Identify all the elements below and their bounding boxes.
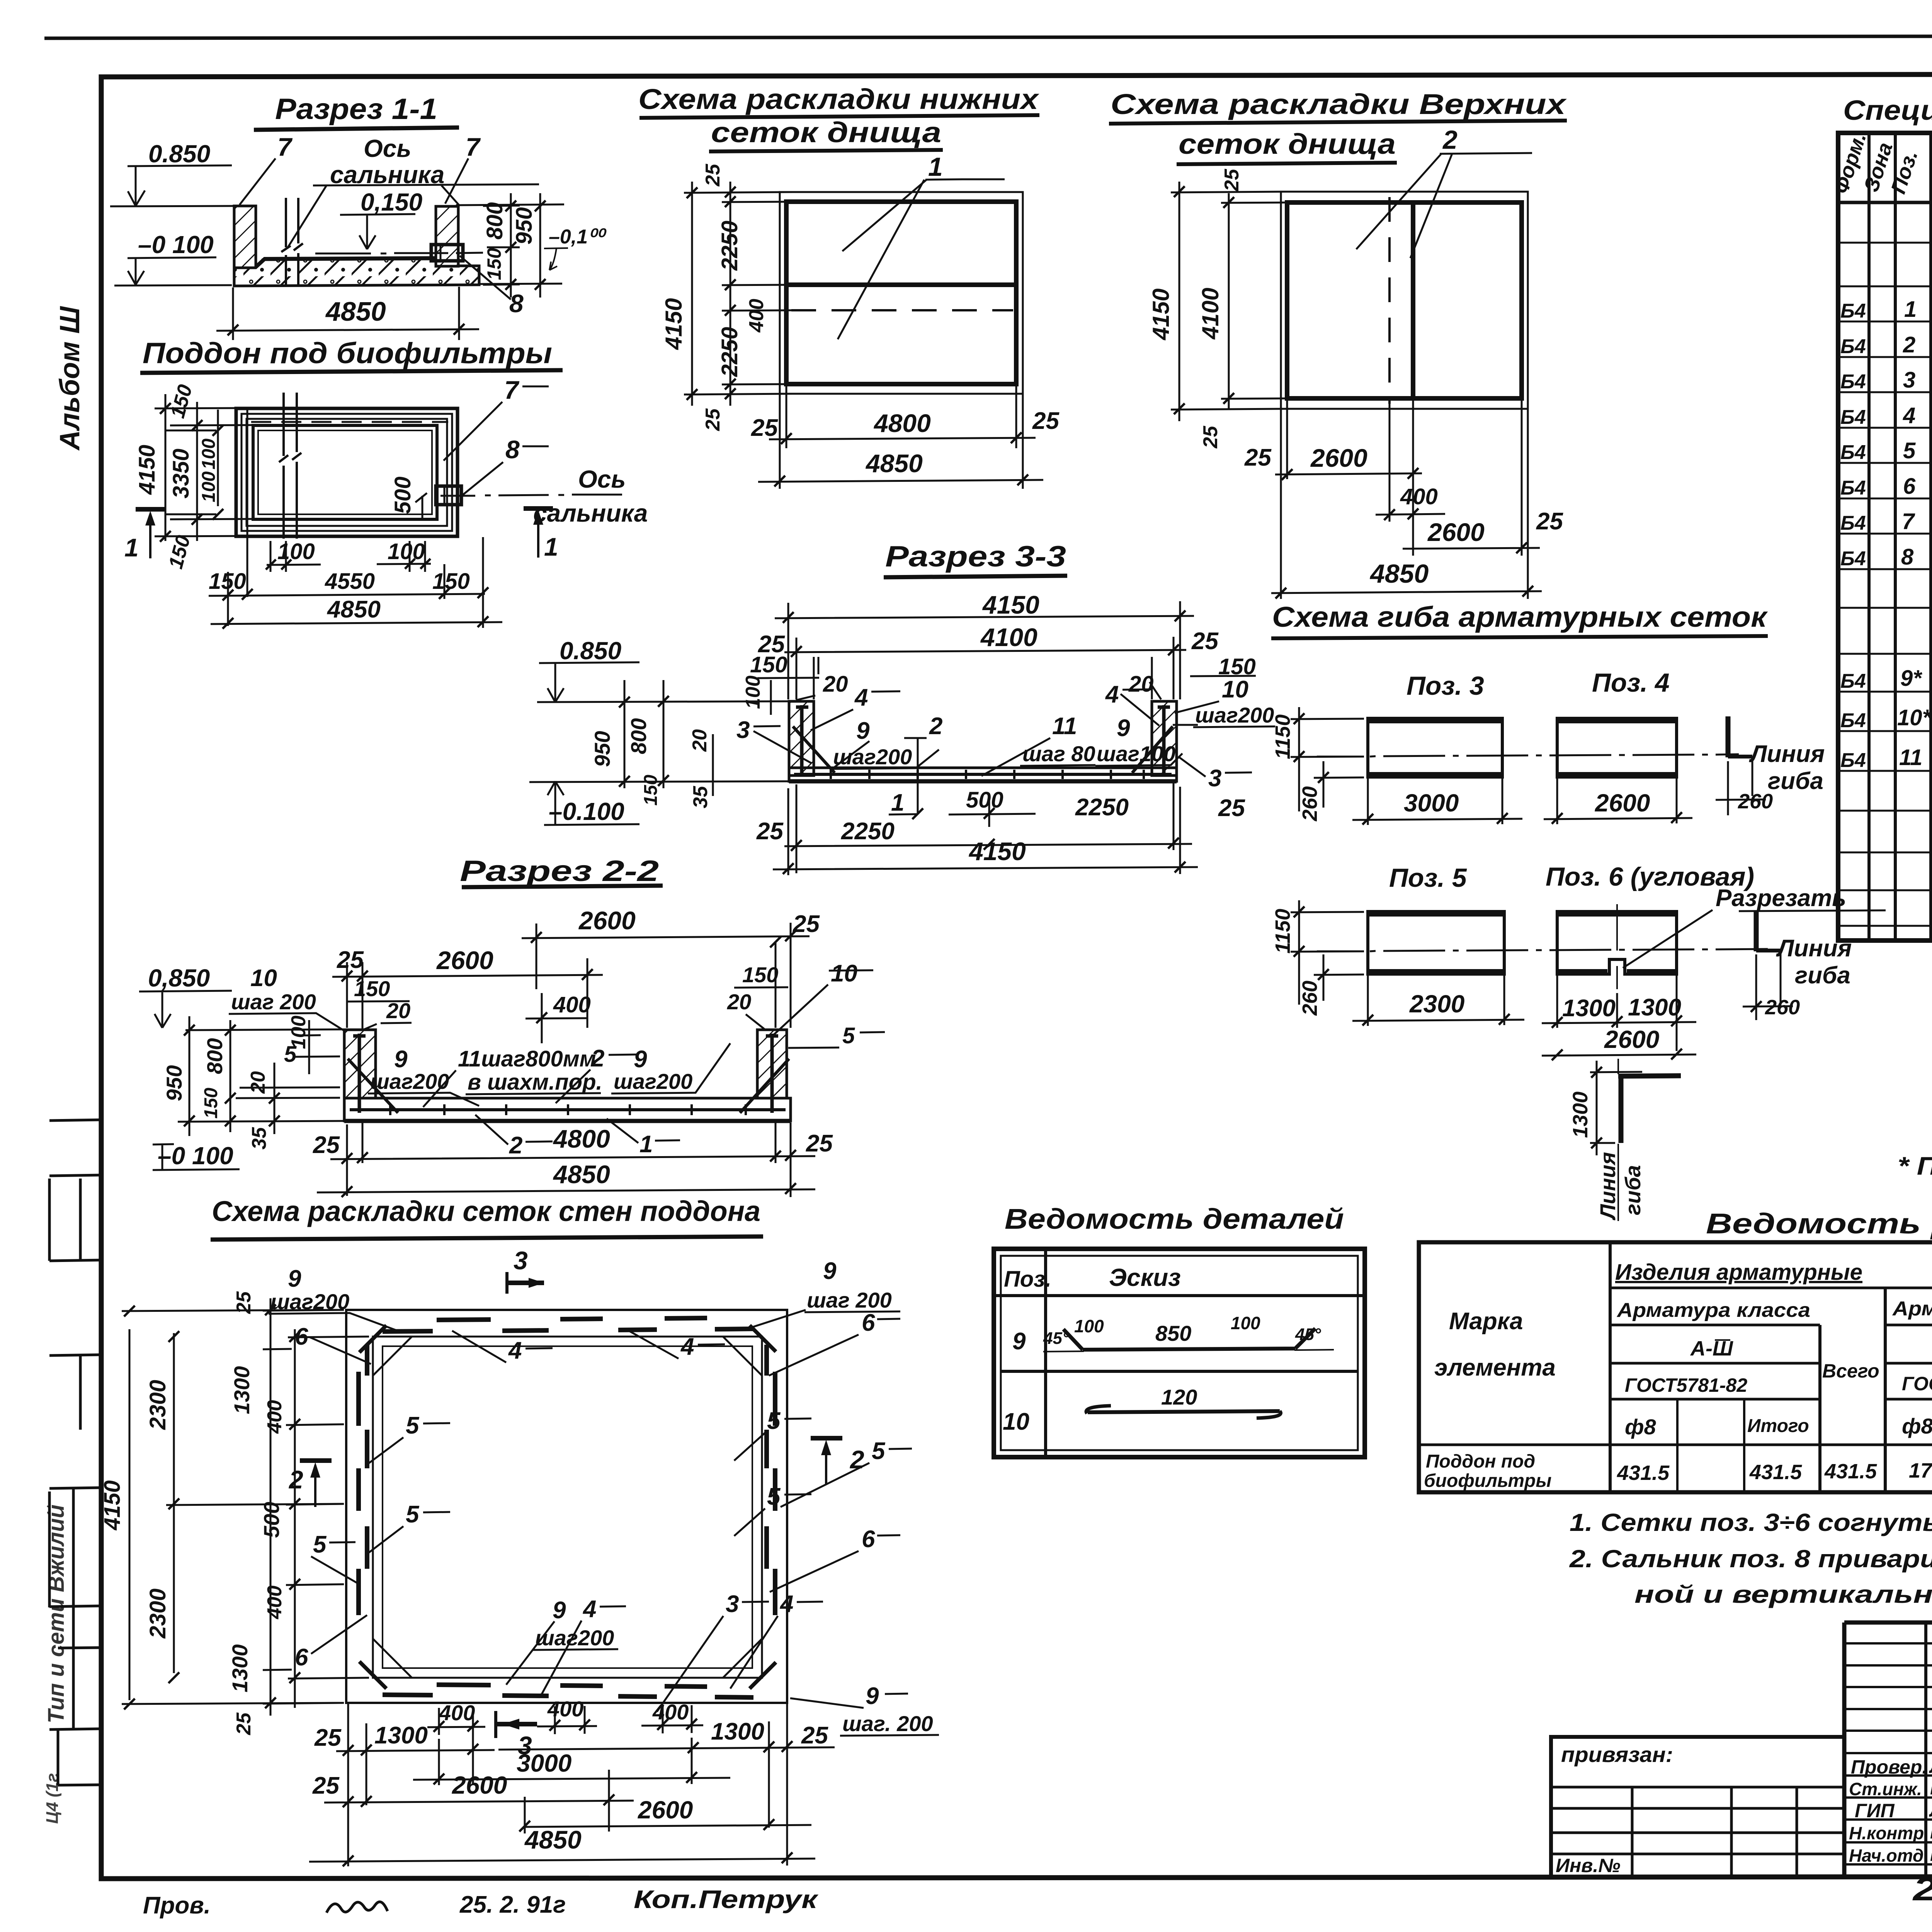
svg-text:ной и вертикальной арматуре.: ной и вертикальной арматуре. (1634, 1580, 1932, 1608)
svg-text:Поддон под биофильтры: Поддон под биофильтры (143, 337, 552, 370)
svg-text:150: 150 (483, 248, 505, 280)
svg-text:Ст.инж.: Ст.инж. (1849, 1779, 1922, 1799)
svg-text:800: 800 (202, 1038, 227, 1074)
section mark 1 left (136, 507, 165, 512)
svg-text:ГОСТ5781-82: ГОСТ5781-82 (1625, 1374, 1747, 1396)
mesh hidden dashed line (791, 309, 1013, 311)
svg-text:2600: 2600 (1604, 1026, 1659, 1053)
table outer border (1838, 133, 1932, 940)
svg-text:Ось: Ось (578, 465, 626, 493)
svg-text:9: 9 (823, 1258, 837, 1284)
wall rebar left (796, 705, 808, 773)
fold mark (49, 1175, 101, 1261)
svg-text:Б4: Б4 (1840, 548, 1866, 570)
svg-text:гиба: гиба (1621, 1165, 1645, 1215)
svg-text:25: 25 (1221, 168, 1243, 192)
svg-text:Б4: Б4 (1840, 406, 1866, 429)
svg-text:5: 5 (1903, 438, 1916, 463)
svg-text:Всего: Всего (1822, 1360, 1879, 1382)
right wall hatched overlay (436, 206, 458, 266)
fold mark (49, 1606, 101, 1607)
VIEW-R22 (139, 855, 885, 1197)
row lines (1838, 243, 1932, 926)
svg-text:4850: 4850 (865, 449, 923, 478)
bend line symbol row2 (1754, 912, 1759, 951)
svg-text:100: 100 (388, 539, 425, 564)
section mark 1 right (524, 506, 553, 511)
svg-text:150: 150 (432, 569, 470, 594)
svg-text:22640-02: 22640-02 (1912, 1871, 1932, 1907)
svg-text:400: 400 (745, 299, 768, 333)
svg-text:3350: 3350 (168, 449, 194, 498)
left wall hatched (344, 1030, 376, 1098)
svg-text:25: 25 (793, 911, 820, 937)
svg-text:Б4: Б4 (1840, 477, 1866, 499)
svg-text:9: 9 (634, 1046, 647, 1073)
axis dash-dot row2 (1317, 949, 1768, 951)
wall rebar left (353, 1034, 366, 1113)
fold mark (49, 1729, 101, 1730)
svg-text:150: 150 (750, 652, 787, 677)
bottom dim 4850 (758, 480, 1043, 482)
svg-text:25: 25 (1244, 444, 1272, 471)
svg-text:150: 150 (641, 775, 661, 806)
svg-text:4850: 4850 (553, 1160, 610, 1189)
svg-text:25: 25 (806, 1130, 833, 1157)
svg-text:Инв.№: Инв.№ (1556, 1855, 1621, 1876)
mesh bars right wall (767, 1345, 775, 1615)
svg-text:35: 35 (689, 786, 712, 808)
svg-text:100: 100 (1231, 1313, 1260, 1333)
svg-text:120: 120 (1161, 1385, 1197, 1409)
svg-text:1: 1 (1904, 297, 1917, 322)
svg-text:1150: 1150 (1271, 909, 1294, 954)
table outer border (1419, 1242, 1932, 1492)
svg-text:сеток днища: сеток днища (1179, 128, 1396, 160)
svg-text:5: 5 (406, 1501, 420, 1528)
svg-text:Схема раскладки сеток стен по: Схема раскладки сеток стен поддона (212, 1195, 760, 1227)
svg-text:6: 6 (1903, 474, 1916, 499)
svg-text:4100: 4100 (1197, 288, 1223, 340)
VEDSTEEL (1419, 1207, 1932, 1608)
gland item 8 in right wall (436, 486, 461, 505)
svg-text:шаг200: шаг200 (535, 1626, 614, 1650)
svg-text:Разрез 3-3: Разрез 3-3 (885, 540, 1066, 573)
right wall hatched (1152, 701, 1177, 776)
formwork step line (241, 414, 452, 531)
svg-text:2300: 2300 (1409, 990, 1464, 1018)
svg-text:в шахм.пор.: в шахм.пор. (468, 1070, 602, 1095)
svg-text:20: 20 (689, 729, 711, 752)
svg-text:6: 6 (862, 1310, 875, 1336)
dim 1150 row2 (1291, 900, 1364, 1005)
mesh 2 outline heavy (1287, 202, 1522, 398)
svg-text:100: 100 (742, 675, 764, 709)
svg-text:6: 6 (295, 1644, 308, 1671)
svg-text:8: 8 (505, 435, 520, 464)
svg-text:11: 11 (1052, 713, 1077, 740)
VIEW-WALLMESH (100, 1195, 939, 1866)
svg-text:1300: 1300 (1569, 1092, 1592, 1138)
mesh poz6 rectangle with notch (1557, 912, 1677, 974)
svg-text:Арматура класса: Арматура класса (1892, 1298, 1932, 1320)
svg-text:5: 5 (284, 1042, 297, 1067)
svg-text:5: 5 (872, 1438, 886, 1464)
svg-text:Письман: Письман (1930, 1821, 1932, 1843)
svg-text:25. 2. 91г: 25. 2. 91г (459, 1891, 566, 1918)
slab outline thin (780, 192, 1023, 394)
privyazan box (1551, 1737, 1844, 1877)
svg-text:25: 25 (1191, 628, 1219, 655)
signature grid rows (1844, 1643, 1932, 1864)
svg-text:Спецификация к поддону под: Спецификация к поддону под биофильтры (1843, 95, 1932, 126)
leader lines to axis text (288, 184, 539, 247)
right wall hatched (757, 1030, 787, 1098)
corner bend detail (1618, 1076, 1681, 1076)
svg-text:Поз. 5: Поз. 5 (1389, 863, 1467, 893)
axis dash-dot row1 (1317, 754, 1739, 757)
wall rebar right (766, 1034, 778, 1113)
svg-text:100: 100 (199, 471, 219, 502)
LEFTMARGIN (43, 306, 101, 1824)
svg-text:биофильтры: биофильтры (1424, 1471, 1551, 1491)
vertical lines (1610, 1242, 1932, 1492)
svg-text:Ведомость деталей: Ведомость деталей (1005, 1203, 1344, 1235)
svg-text:25: 25 (1032, 408, 1060, 434)
mesh bars bottom wall (383, 1685, 753, 1697)
svg-text:2300: 2300 (145, 1588, 170, 1639)
svg-text:260: 260 (1738, 790, 1773, 813)
fold mark (49, 1355, 101, 1355)
svg-text:3: 3 (1208, 765, 1221, 792)
svg-text:Изделия арматурные: Изделия арматурные (1615, 1260, 1862, 1285)
left dim lines (155, 394, 255, 541)
svg-text:20: 20 (823, 672, 848, 697)
formwork step line (247, 419, 447, 526)
axis dash-dot line (315, 253, 483, 253)
svg-text:4: 4 (508, 1337, 522, 1364)
svg-text:9: 9 (856, 718, 870, 744)
svg-text:4850: 4850 (524, 1825, 582, 1854)
hooked bar sketch 10 (1088, 1411, 1280, 1412)
svg-text:1: 1 (544, 532, 558, 561)
pallet inner wall edge (253, 425, 437, 519)
svg-text:ф8: ф8 (1625, 1415, 1656, 1439)
svg-text:0,850: 0,850 (148, 964, 210, 992)
svg-text:25: 25 (312, 1772, 340, 1799)
svg-text:2600: 2600 (638, 1796, 693, 1824)
svg-text:4: 4 (854, 684, 868, 711)
svg-text:4850: 4850 (325, 296, 386, 327)
svg-text:Итого: Итого (1747, 1416, 1809, 1436)
fold mark (49, 1488, 101, 1607)
BOTTOMLINE (143, 1885, 819, 1919)
svg-text:4850: 4850 (1369, 559, 1429, 588)
title underline (1271, 636, 1768, 638)
svg-text:850: 850 (1155, 1321, 1191, 1345)
right dims 800 950 150 (483, 193, 540, 298)
signature scribble (327, 1902, 388, 1913)
svg-text:500: 500 (966, 787, 1003, 813)
svg-text:7: 7 (504, 376, 520, 404)
VIEW-TOPMESH (1109, 88, 1567, 599)
VIEW-R11 (110, 93, 607, 340)
svg-text:35: 35 (248, 1127, 270, 1150)
dim 260 row2 left (1314, 954, 1364, 1001)
svg-text:431.5: 431.5 (1749, 1461, 1802, 1484)
svg-text:25: 25 (702, 408, 724, 431)
VEDDETAIL (994, 1203, 1365, 1457)
svg-text:5: 5 (767, 1408, 781, 1434)
svg-text:1: 1 (639, 1131, 653, 1158)
outer top border line (44, 36, 1932, 38)
svg-text:Б4: Б4 (1840, 670, 1866, 692)
title underline1 (639, 115, 1039, 118)
svg-text:2250: 2250 (717, 221, 742, 271)
svg-text:Б4: Б4 (1840, 300, 1866, 322)
title underline2 (709, 150, 943, 151)
svg-text:3000: 3000 (1404, 789, 1459, 817)
svg-text:4150: 4150 (1148, 289, 1174, 340)
svg-text:Марка: Марка (1449, 1308, 1523, 1335)
svg-text:Красавин: Красавин (1930, 1844, 1932, 1865)
mesh overlap heavy line (786, 282, 1016, 287)
svg-text:2600: 2600 (1427, 518, 1485, 546)
VIEW-R33 (529, 540, 1275, 875)
left dim 4150 (684, 182, 793, 406)
svg-text:4150: 4150 (661, 298, 687, 350)
pipe break through wall (281, 198, 303, 284)
svg-text:2600: 2600 (436, 946, 493, 975)
svg-text:25: 25 (314, 1725, 342, 1751)
slab bottom heavy (344, 1119, 791, 1123)
svg-text:400: 400 (547, 1697, 583, 1721)
svg-text:Провер.: Провер. (1851, 1756, 1927, 1778)
corner bend marks (359, 1325, 776, 1689)
svg-text:2600: 2600 (578, 906, 636, 935)
svg-text:431.5: 431.5 (1617, 1461, 1670, 1485)
svg-text:500: 500 (390, 476, 415, 514)
svg-text:4: 4 (1903, 403, 1915, 428)
svg-text:4150: 4150 (134, 445, 160, 495)
svg-text:элемента: элемента (1434, 1354, 1556, 1381)
svg-text:4: 4 (779, 1591, 793, 1617)
svg-text:Разрез 1-1: Разрез 1-1 (275, 93, 437, 126)
floor edge (383, 1346, 752, 1668)
svg-text:Б4: Б4 (1840, 512, 1866, 534)
svg-text:Арматура класса: Арматура класса (1616, 1299, 1810, 1321)
title underline (884, 576, 1067, 577)
svg-text:сальника: сальника (533, 499, 648, 527)
svg-text:Ц4 (1г: Ц4 (1г (43, 1773, 62, 1824)
slab body (344, 1098, 791, 1121)
svg-text:7: 7 (1902, 509, 1915, 534)
svg-text:17: 17 (1909, 1459, 1932, 1482)
header bottom (1838, 201, 1932, 204)
TITLEBLOCK (1551, 1622, 1932, 1907)
VIEW-PLAN (124, 337, 648, 629)
svg-text:шаг200: шаг200 (1195, 703, 1274, 727)
svg-text:Нач.отд: Нач.отд (1849, 1845, 1923, 1866)
svg-text:10: 10 (250, 965, 277, 992)
svg-text:Схема раскладки нижних: Схема раскладки нижних (638, 83, 1039, 115)
dim 260 row1 left (1314, 761, 1364, 808)
gland axis dash-dot (440, 495, 622, 496)
svg-text:шаг200: шаг200 (614, 1069, 692, 1094)
svg-text:9: 9 (394, 1046, 408, 1073)
svg-text:Разрез 2-2: Разрез 2-2 (460, 855, 659, 888)
svg-text:4: 4 (680, 1333, 694, 1360)
svg-text:25: 25 (756, 818, 784, 845)
svg-text:0.850: 0.850 (148, 140, 210, 168)
svg-text:гиба: гиба (1795, 962, 1850, 989)
mesh bars top wall (383, 1318, 753, 1332)
inner floor heavy line (256, 258, 437, 267)
svg-text:шаг 200: шаг 200 (231, 990, 316, 1014)
column lines (1869, 133, 1932, 940)
svg-text:431.5: 431.5 (1824, 1460, 1877, 1483)
svg-text:шаг. 200: шаг. 200 (842, 1711, 933, 1736)
svg-text:шаг 80: шаг 80 (1022, 742, 1095, 766)
svg-text:4100: 4100 (980, 623, 1037, 651)
svg-text:3: 3 (1903, 367, 1915, 393)
svg-text:25: 25 (1218, 795, 1245, 821)
svg-text:Поз. 3: Поз. 3 (1406, 671, 1484, 701)
svg-text:4: 4 (582, 1596, 596, 1622)
corner chamfers (373, 1337, 762, 1678)
svg-text:11: 11 (1899, 745, 1922, 770)
svg-text:2600: 2600 (1595, 789, 1650, 817)
svg-text:Схема раскладки Верхних: Схема раскладки Верхних (1111, 88, 1567, 120)
title underline1 (1109, 121, 1567, 124)
mesh poz3 rectangle (1368, 718, 1502, 777)
svg-text:4850: 4850 (327, 596, 381, 623)
svg-text:2600: 2600 (452, 1771, 507, 1799)
svg-text:25: 25 (751, 415, 778, 441)
svg-text:1300: 1300 (711, 1718, 764, 1745)
svg-text:Б4: Б4 (1840, 709, 1866, 732)
svg-text:–0,1⁰⁰: –0,1⁰⁰ (549, 226, 607, 248)
svg-text:400: 400 (264, 1400, 286, 1434)
svg-text:4800: 4800 (553, 1124, 610, 1153)
svg-text:4150: 4150 (968, 837, 1026, 866)
svg-text:500: 500 (259, 1502, 284, 1538)
title block outer (1844, 1622, 1932, 1877)
svg-text:–0 100: –0 100 (158, 1142, 233, 1170)
svg-text:2: 2 (509, 1132, 522, 1159)
svg-text:Ось: Ось (364, 134, 411, 162)
slab mesh line with ticks (350, 1108, 786, 1111)
header row line (994, 1249, 1365, 1457)
left wall hatched (234, 206, 256, 268)
svg-text:9: 9 (1117, 715, 1130, 742)
svg-text:2: 2 (1903, 332, 1915, 357)
mesh hidden dashed vertical (1388, 197, 1391, 404)
svg-text:1300: 1300 (230, 1366, 254, 1414)
svg-text:* Поз. 9,10 см. Ведомость дет: * Поз. 9,10 см. Ведомость деталей. (1898, 1151, 1932, 1180)
bottom slab concrete (234, 206, 479, 286)
svg-text:2300: 2300 (145, 1380, 170, 1430)
section mark 3 bottom (494, 1711, 497, 1738)
svg-text:Б4: Б4 (1840, 335, 1866, 358)
svg-text:Линия: Линия (1749, 741, 1825, 767)
svg-text:100: 100 (199, 439, 219, 469)
svg-text:2: 2 (591, 1045, 604, 1072)
svg-text:Б4: Б4 (1840, 441, 1866, 464)
svg-text:100: 100 (1074, 1316, 1104, 1336)
corner diagonal bars (348, 1059, 789, 1113)
svg-text:25: 25 (801, 1722, 828, 1749)
svg-text:Б4: Б4 (1840, 749, 1866, 772)
SPECTABLE (1829, 95, 1932, 1180)
svg-text:Н.контр: Н.контр (1849, 1823, 1924, 1843)
svg-text:Тип и сети Вжилий: Тип и сети Вжилий (44, 1505, 69, 1723)
svg-text:10: 10 (1222, 676, 1248, 703)
svg-text:3000: 3000 (517, 1749, 571, 1777)
svg-text:–0 100: –0 100 (138, 231, 214, 259)
svg-text:9: 9 (866, 1683, 879, 1709)
svg-text:Разрезать: Разрезать (1716, 885, 1846, 912)
svg-text:150: 150 (354, 976, 390, 1001)
svg-text:25: 25 (233, 1712, 255, 1735)
svg-text:привязан:: привязан: (1561, 1742, 1673, 1767)
svg-text:Пров.: Пров. (143, 1892, 211, 1919)
svg-text:20: 20 (247, 1071, 269, 1094)
svg-text:9*: 9* (1900, 666, 1922, 691)
wall inner edge (373, 1337, 762, 1678)
svg-text:4800: 4800 (873, 409, 931, 437)
left dim 4150 4100 (1171, 182, 1291, 421)
svg-text:Коледина: Коледина (1930, 1777, 1932, 1799)
svg-text:шаг200: шаг200 (833, 745, 912, 769)
bottom dim 25 2600 400 2600 25 (1271, 398, 1542, 599)
svg-text:Поддон под: Поддон под (1426, 1451, 1535, 1472)
title underline (140, 370, 563, 373)
svg-text:400: 400 (652, 1700, 689, 1724)
svg-text:25: 25 (337, 947, 364, 973)
title underline (254, 128, 459, 130)
svg-text:1. Сетки поз. 3÷6 согнуть по м: 1. Сетки поз. 3÷6 согнуть по месту до ус… (1570, 1509, 1932, 1536)
svg-text:2250: 2250 (1075, 794, 1129, 821)
svg-text:950: 950 (590, 731, 614, 767)
svg-text:2250: 2250 (717, 327, 742, 377)
svg-text:260: 260 (1765, 996, 1800, 1019)
slab bottom heavy (789, 779, 1177, 784)
horizontal lines (1419, 1288, 1932, 1445)
slab outline thin (1281, 192, 1528, 409)
svg-text:5: 5 (313, 1531, 327, 1558)
table outer double border (994, 1249, 1365, 1457)
title underline2 (1177, 163, 1397, 164)
VIEW-GIB (1271, 601, 1886, 1221)
svg-text:9: 9 (1012, 1328, 1026, 1355)
gland item 8 (431, 245, 463, 261)
svg-text:Ведомость расхода стали на: Ведомость расхода стали на элемент (1706, 1207, 1932, 1240)
bent bar sketch 9 (1063, 1328, 1315, 1350)
svg-text:1150: 1150 (1271, 714, 1294, 759)
pallet outer edge (236, 408, 457, 536)
svg-text:Эскиз: Эскиз (1109, 1264, 1181, 1291)
svg-text:Альбом Ш: Альбом Ш (54, 306, 85, 451)
title underline (462, 886, 663, 887)
svg-text:сеток днища: сеток днища (711, 116, 941, 148)
svg-text:1: 1 (928, 152, 943, 182)
svg-text:Поз.: Поз. (1004, 1267, 1051, 1292)
row line (1001, 1370, 1358, 1373)
svg-text:9: 9 (553, 1597, 566, 1624)
svg-text:гиба: гиба (1768, 768, 1823, 794)
svg-text:4150: 4150 (982, 590, 1039, 619)
